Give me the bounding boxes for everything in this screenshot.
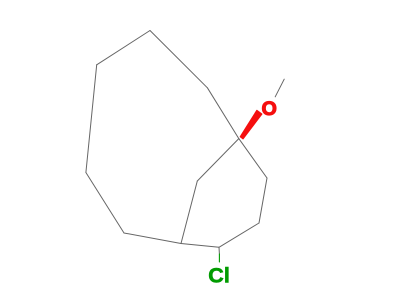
bond C4-C5 (bottom edge): [124, 233, 181, 244]
bond C6-C7 (bottom-right): [219, 223, 259, 247]
svg-text:O: O: [262, 98, 277, 120]
bond C6-Cl upper half: [218, 247, 220, 254]
bond C7-C8 (right edge): [259, 178, 267, 223]
bond C11-C9 (right top edge to stereocenter): [207, 88, 238, 139]
bond C6-Cl lower half (green): [218, 254, 220, 262]
bond C5-C6 (bottom edge): [181, 244, 219, 248]
bond C8-C9 (to stereocenter): [239, 139, 267, 178]
bond C1-C2 (top apex to upper-left): [97, 31, 150, 65]
bond C2-C3 (left edge): [86, 65, 97, 173]
bond C3-C4 (lower-left edge): [86, 173, 124, 234]
bond O-CH3 (methyl stub): [275, 79, 284, 97]
red stereo wedge bond C9-O: [240, 111, 261, 139]
svg-text:Cl: Cl: [208, 264, 230, 288]
bond C1-C11 (top apex to right edge): [150, 31, 207, 88]
bond C10-C5 (bridge): [181, 181, 197, 244]
bond C9-C10 (bridge): [197, 139, 239, 181]
